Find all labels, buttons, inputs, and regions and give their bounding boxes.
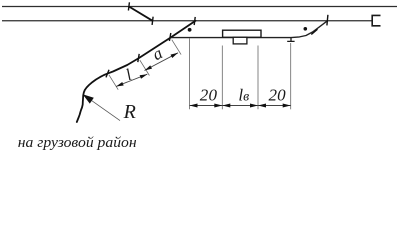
joint tick at right junction on track II [327,15,328,26]
crossover turnout diagonal between track I and track II [129,7,153,21]
limit post dot (left) [188,28,192,32]
track limit marker (T post) on siding [287,38,294,42]
dimension extension line x=222.3 [221,46,223,110]
branch track to freight area (diagonal + curve) [77,21,196,122]
switch tick on track II [152,17,153,25]
svg-text:R: R [123,101,136,123]
R leader line [92,101,120,121]
joint tick T2 at siding junction [169,33,170,41]
main track II (second line) [2,20,372,22]
a dim arrow upper [171,53,178,58]
limit post dot (right) [304,27,308,31]
extension line from T2 for a-dimension [172,40,181,55]
track end bumper (dead-end symbol) [372,15,380,25]
svg-text:20: 20 [268,86,286,105]
dim arrow left at 189.5 [190,104,198,108]
joint tick T3 on branch diagonal [138,54,139,62]
dimension extension line x=258 [257,46,259,110]
svg-text:lв: lв [238,86,249,105]
extension line from T3 shared by a and l dimensions [140,60,150,75]
bottom dimension line [190,105,291,107]
main track I (top line) [2,6,397,8]
tick on right connecting curve [311,29,317,34]
dimension extension line x=189.5 [189,38,191,109]
svg-text:20: 20 [200,86,218,105]
a dim arrow lower [145,65,153,70]
warehouse building rectangle [223,30,261,37]
warehouse ramp tab below [233,37,247,44]
l dim arrow lower [116,82,124,87]
dim arrows at 222.3 [214,104,222,108]
svg-text:l: l [123,65,135,85]
dim arrow right at 290.7 [283,104,291,108]
a dimension line [145,53,179,71]
dimension extension line x=290.7 [290,43,292,109]
extension line from T4 for l-dimension [109,75,118,90]
dim arrows at 258 [250,104,258,108]
joint tick T4 at curve tangent point [106,70,109,78]
switch tick on track I [128,2,129,10]
joint tick T1 at branch junction on track II [194,17,195,25]
siding track (warehouse track) with right-hand curve to track II [171,21,328,38]
svg-text:a: a [149,43,166,64]
R leader arrowhead pointing at curve [83,94,94,103]
svg-text:на грузовой район: на грузовой район [18,135,137,151]
l dim arrow upper [140,74,148,79]
l dimension line [116,74,147,86]
